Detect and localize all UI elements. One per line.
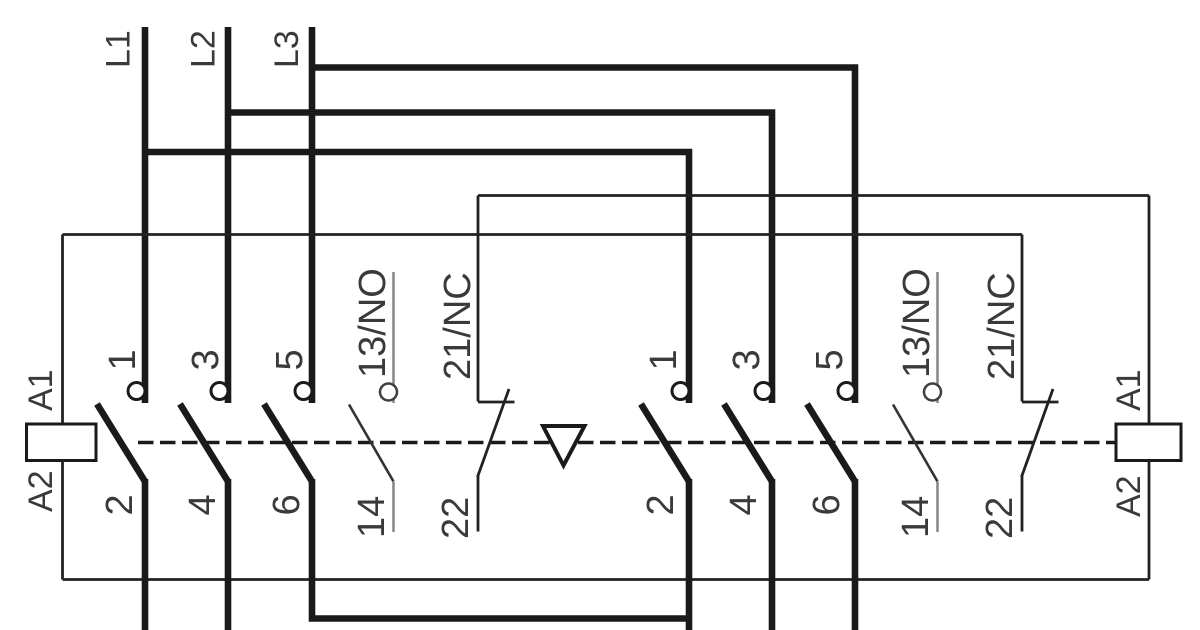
K1 aux NC blade — [478, 389, 510, 477]
K1 pole 2 bottom wire — [142, 479, 149, 630]
K1 aux NO 14 bottom wire — [392, 482, 395, 532]
mechanical interlock triangle — [543, 426, 585, 466]
svg-text:L2: L2 — [185, 30, 223, 68]
svg-text:14: 14 — [351, 496, 393, 538]
K2 pole 2 bottom wire — [686, 479, 693, 630]
svg-text:4: 4 — [182, 494, 224, 515]
K2 pole 1-2 blade — [641, 404, 689, 482]
svg-text:A1: A1 — [1110, 369, 1148, 411]
svg-text:22: 22 — [979, 497, 1021, 539]
svg-text:3: 3 — [726, 349, 768, 370]
K1 pole 4 bottom wire — [225, 479, 232, 630]
contactor K2 pole 1-2 contact circle — [672, 383, 689, 400]
svg-text:6: 6 — [266, 494, 308, 515]
svg-text:22: 22 — [435, 497, 477, 539]
contactor K2 pole 3-4 contact circle — [755, 383, 772, 400]
svg-text:3: 3 — [185, 349, 227, 370]
K2 aux NC fixed bar — [1022, 401, 1059, 404]
K2 aux NC 22 stub wire — [1021, 476, 1024, 532]
K1 aux NO 13 terminal wire/underline — [392, 272, 395, 403]
coil K2 top wire A1 — [1148, 196, 1151, 425]
K2 aux NO 14 bottom wire — [936, 482, 939, 532]
svg-text:L1: L1 — [100, 30, 138, 68]
wire L3 supply vertical into K1 pole 5 — [309, 27, 316, 403]
svg-text:1: 1 — [102, 349, 144, 370]
K1 aux NO blade — [349, 405, 394, 482]
K2 pole 3-4 blade — [724, 404, 772, 482]
K1 pole 1-2 blade — [97, 404, 145, 482]
wire L1 supply vertical into K1 pole 1 — [142, 27, 149, 403]
K2 aux NO 13 terminal wire/underline — [936, 272, 939, 403]
svg-text:A1: A1 — [22, 369, 60, 411]
K1 aux NC fixed bar — [478, 401, 515, 404]
svg-text:6: 6 — [806, 494, 848, 515]
K2 aux NO contact circle — [924, 384, 941, 401]
coil K2 bottom wire A2 — [1148, 461, 1151, 580]
svg-text:A2: A2 — [22, 470, 60, 512]
wire control A1(K1) from left coil to K2 NC 21 at y=233 — [63, 233, 1023, 236]
contactor K1 pole 1-2 contact circle — [128, 383, 145, 400]
coil K2 rectangle — [1116, 424, 1181, 461]
K2 aux NC blade — [1022, 389, 1054, 477]
contactor K1 pole 3-4 contact circle — [211, 383, 228, 400]
svg-text:21/NC: 21/NC — [437, 272, 479, 380]
svg-text:13/NO: 13/NO — [352, 268, 394, 378]
svg-text:4: 4 — [723, 494, 765, 515]
K1 aux NC 21 terminal wire — [477, 196, 480, 402]
svg-text:2: 2 — [640, 494, 682, 515]
coil K1 top wire A1 — [61, 235, 64, 425]
coil K1 bottom wire A2 — [61, 461, 64, 580]
svg-text:14: 14 — [895, 496, 937, 538]
svg-text:5: 5 — [809, 349, 851, 370]
svg-text:5: 5 — [269, 349, 311, 370]
K2 pole 5-6 blade — [807, 404, 855, 482]
svg-text:1: 1 — [643, 349, 685, 370]
dashed mechanical linkage line — [138, 441, 1120, 444]
wire control A2-A2 bottom link at y=578 — [63, 578, 1150, 581]
K2 aux NO blade — [893, 405, 938, 482]
K1 aux NC 22 stub wire — [477, 476, 480, 532]
svg-text:13/NO: 13/NO — [896, 268, 938, 378]
wire control A1(K2) from right coil to K1 NC 21 at y=196 — [478, 194, 1149, 197]
K2 pole 6 bottom wire — [852, 479, 859, 630]
wire branch L2 to K2 pole 3 (horizontal) — [228, 113, 772, 404]
K1 pole 5-6 blade — [264, 404, 312, 482]
K2 aux NC 21 terminal wire — [1021, 235, 1024, 402]
K1 aux NO contact circle — [380, 384, 397, 401]
wire L2 supply vertical into K1 pole 3 — [225, 27, 232, 403]
K1 pole 6 bottom wire + crossover to K2 pole 2 — [312, 479, 689, 619]
svg-text:2: 2 — [99, 494, 141, 515]
contactor K1 pole 5-6 contact circle — [295, 383, 312, 400]
K1 pole 3-4 blade — [180, 404, 228, 482]
wire branch L3 to K2 pole 5 (horizontal) — [312, 68, 855, 404]
contactor K2 pole 5-6 contact circle — [838, 383, 855, 400]
coil K1 rectangle — [27, 424, 97, 461]
K2 pole 4 bottom wire — [769, 479, 776, 630]
svg-text:21/NC: 21/NC — [981, 272, 1023, 380]
svg-text:L3: L3 — [268, 30, 306, 68]
wire branch L1 to K2 pole 1 (horizontal) — [145, 152, 689, 403]
svg-text:A2: A2 — [1110, 475, 1148, 517]
